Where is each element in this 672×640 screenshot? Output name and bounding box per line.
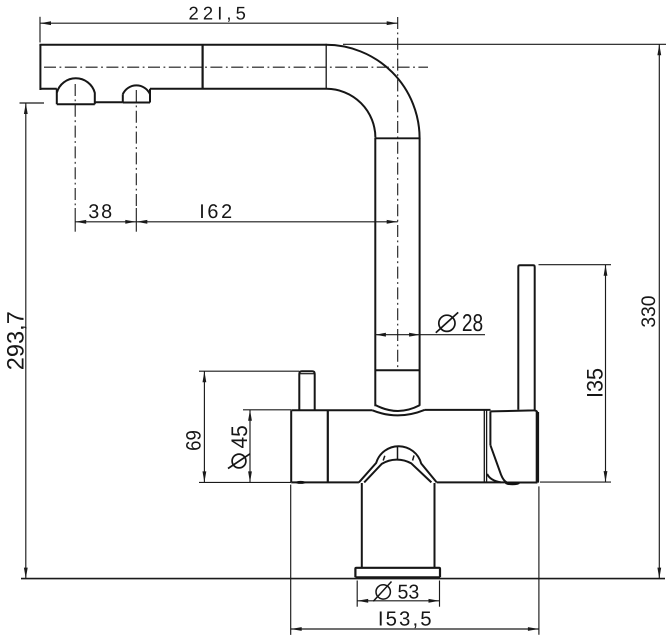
dim 38 and 162 line (75, 221, 398, 223)
svg-text:38: 38 (88, 201, 112, 223)
bend joint line (375, 137, 419, 139)
dim 293,7 line (25, 103, 27, 579)
body bottom edge left (291, 481, 359, 483)
arrow 135 up (604, 265, 608, 276)
dim 135 bottom tick (540, 481, 611, 483)
arrow 221,5 left (40, 21, 51, 25)
spout horizontal centerline (44, 66, 428, 68)
ledge between bumps (95, 101, 123, 103)
base column left edge (361, 483, 363, 568)
bump2 centerline (135, 90, 137, 208)
svg-text:I62: I62 (199, 201, 232, 223)
body left edge (290, 411, 292, 483)
arrow o45 up (248, 410, 252, 421)
dim o53 right extension (439, 581, 441, 607)
diameter symbol o45 (228, 454, 250, 469)
arrow o53 left (357, 599, 368, 603)
cone inner profile (364, 460, 431, 483)
dim o45 top tick (243, 409, 291, 411)
base flange (355, 568, 440, 578)
arrow o45 down (248, 471, 252, 482)
body bottom edge right (437, 481, 506, 483)
body left joint line (327, 410, 329, 482)
svg-text:45: 45 (227, 425, 252, 448)
lever rod (518, 265, 534, 410)
valve diagonal lever edge (490, 445, 506, 482)
body top edge right (425, 409, 491, 411)
arrow 162 right (387, 220, 398, 224)
arrow 69 down (203, 471, 207, 482)
arrow 69 up (203, 371, 207, 382)
arrow 38 right (125, 220, 136, 224)
body end cap curve (487, 474, 501, 482)
cone left radial tick (383, 456, 385, 461)
diameter symbol o28 (436, 312, 458, 332)
spout left edge (39, 45, 41, 90)
dim 330 top extension (343, 43, 666, 45)
arrow 153,5 left (291, 627, 302, 631)
dim o28 line (375, 334, 486, 336)
saddle lower body dip arc (372, 410, 424, 415)
cone right radial tick (413, 455, 414, 460)
side pipe cap line (300, 373, 315, 375)
spout bottom edge left segment (40, 88, 57, 90)
vertical tube left edge (374, 138, 376, 406)
dim 221,5 line (40, 22, 398, 24)
dim o53 left extension (356, 581, 358, 607)
dim 135 line (605, 265, 607, 482)
svg-text:I35: I35 (583, 368, 608, 398)
dim 69 bottom tick (199, 481, 291, 483)
svg-text:28: 28 (462, 310, 483, 337)
arrow o28 right (409, 333, 420, 337)
svg-text:330: 330 (638, 295, 660, 327)
arrow 221,5 right (387, 21, 398, 25)
spout top edge and outer bend arc (39, 45, 419, 139)
valve right edge (536, 412, 539, 483)
dim 69 top tick (199, 370, 299, 372)
dim 153,5 right extension (538, 486, 540, 634)
valve gap blob (505, 482, 520, 486)
cone outer profile (359, 446, 437, 482)
dim 153,5 left extension (290, 485, 292, 635)
aerator bump 1 (57, 78, 95, 104)
arrow 293,7 down (24, 568, 28, 579)
arrow 330 up (657, 44, 661, 55)
dim 221,5 extension line (39, 17, 41, 43)
svg-text:293,7: 293,7 (3, 311, 29, 370)
spout bottom edge right segment and inner bend arc (150, 89, 375, 138)
body joint double line (484, 410, 486, 482)
side outlet pipe (299, 371, 314, 410)
saddle upper fillet arc (375, 405, 419, 411)
vertical tube right edge (419, 138, 421, 406)
dim 153,5 line (291, 628, 539, 630)
diameter symbol o53 (373, 582, 391, 602)
arrow 293,7 up (24, 103, 28, 114)
dim 330 line (658, 44, 660, 578)
bump1 centerline (74, 84, 76, 208)
valve top edge (490, 410, 537, 414)
cone center tick (397, 446, 399, 459)
body bottom blob (295, 481, 305, 484)
aerator bump 2 (123, 85, 150, 102)
spout joint line (202, 45, 204, 89)
dim 69 line (203, 371, 205, 482)
dim 293,7 top tick (20, 102, 45, 104)
deck line (21, 578, 665, 580)
arrow o28 left (375, 333, 386, 337)
valve left edge (489, 411, 491, 445)
dim o53 line (357, 600, 439, 602)
svg-text:69: 69 (183, 430, 206, 451)
arrow 162 left (136, 220, 147, 224)
base column right edge (434, 483, 436, 568)
bend tangent joint line (325, 44, 327, 89)
neck joint line (375, 369, 419, 371)
body top edge left (291, 409, 372, 411)
arrow 153,5 right (528, 627, 539, 631)
arrow 330 down (657, 568, 661, 579)
arrow 135 down (604, 471, 608, 482)
arrow o53 right (429, 599, 440, 603)
svg-text:53: 53 (398, 581, 420, 603)
valve bottom edge (507, 482, 538, 484)
tube vertical centerline (397, 17, 399, 368)
svg-text:22I,5: 22I,5 (189, 2, 246, 23)
arrow 38 left (75, 220, 86, 224)
svg-text:I53,5: I53,5 (378, 609, 432, 631)
dim o45 line (249, 410, 251, 483)
dim 135 top tick (539, 264, 612, 266)
